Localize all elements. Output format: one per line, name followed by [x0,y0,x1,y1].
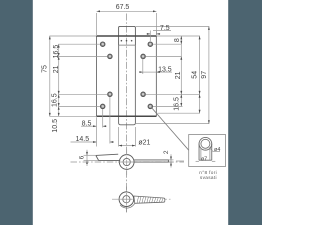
svg-text:13.5: 13.5 [158,66,172,73]
svg-text:ø4: ø4 [214,147,220,153]
svg-text:21: 21 [175,71,182,79]
svg-text:6: 6 [79,155,86,159]
svg-text:75: 75 [42,65,49,73]
svg-text:16.5: 16.5 [52,93,59,107]
svg-text:7.5: 7.5 [160,25,170,32]
svg-text:ø21: ø21 [138,139,150,146]
svg-text:2: 2 [163,150,170,154]
svg-text:16.5: 16.5 [53,45,60,59]
svg-text:54: 54 [192,71,199,79]
svg-text:10.5: 10.5 [52,119,59,133]
svg-text:14.5: 14.5 [75,136,89,143]
svg-text:97: 97 [201,71,208,79]
svg-text:16.5: 16.5 [173,97,180,111]
svg-text:8.5: 8.5 [82,120,92,127]
svg-text:svasati: svasati [200,175,217,180]
svg-text:67.5: 67.5 [116,4,130,11]
svg-text:8: 8 [174,38,181,42]
svg-text:21: 21 [53,65,60,73]
svg-text:ø7: ø7 [201,156,207,162]
